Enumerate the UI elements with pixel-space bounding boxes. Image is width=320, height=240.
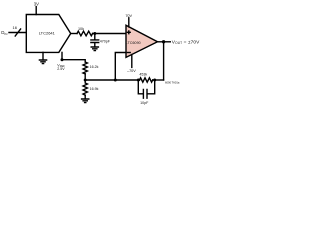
node -IN junction dot bbox=[114, 79, 117, 82]
-70V supply pin bbox=[131, 55, 133, 68]
bus slash 16 bbox=[15, 29, 20, 36]
label 16.9k bbox=[90, 87, 99, 91]
label 3V bbox=[34, 2, 39, 7]
svg-text:LTC6090: LTC6090 bbox=[126, 41, 141, 45]
resistor R4 453k bbox=[140, 78, 153, 82]
DAC ground pin wire bbox=[42, 52, 44, 60]
label DIN bbox=[1, 30, 7, 36]
svg-text:453k: 453k bbox=[139, 73, 147, 77]
wire DIN input lead bbox=[9, 32, 26, 34]
node feedback left dot bbox=[137, 79, 140, 82]
node divider tap dot bbox=[84, 79, 87, 82]
70V supply pin bbox=[128, 18, 130, 27]
resistor R1 16.2k bbox=[83, 62, 87, 74]
node output dot bbox=[162, 40, 165, 43]
svg-text:2.5V: 2.5V bbox=[57, 67, 65, 71]
svg-text:10k: 10k bbox=[78, 27, 84, 31]
svg-text:16: 16 bbox=[13, 25, 18, 30]
label LTC6090 bbox=[126, 41, 141, 45]
wire R2 to ground bbox=[84, 95, 86, 99]
wire VREF node to divider top bbox=[62, 60, 85, 62]
wire 10k to op-amp +IN bbox=[93, 33, 126, 35]
label 70V bbox=[125, 14, 132, 18]
DAC U1 LTC2641 body bbox=[26, 15, 70, 53]
svg-text:3V: 3V bbox=[34, 2, 39, 7]
resistor R3 10k bbox=[77, 31, 93, 36]
label 16 bbox=[13, 25, 18, 30]
output feedback drop wire bbox=[163, 42, 165, 80]
svg-text:470pF: 470pF bbox=[100, 39, 111, 43]
svg-text:LTC2641: LTC2641 bbox=[39, 30, 56, 35]
label LTC2641 bbox=[39, 30, 56, 35]
label fig tag 6090 TA01a bbox=[165, 80, 180, 84]
svg-text:70V: 70V bbox=[125, 14, 132, 18]
svg-text:VOUT = ±70V: VOUT = ±70V bbox=[172, 39, 200, 45]
label 16.2k bbox=[90, 65, 99, 69]
svg-text:10pF: 10pF bbox=[140, 101, 149, 105]
REF pin wire bbox=[61, 52, 63, 59]
label 10k bbox=[78, 27, 84, 31]
svg-text:–70V: –70V bbox=[127, 69, 136, 73]
feedback rail left bbox=[85, 79, 139, 81]
node feedback right dot bbox=[153, 79, 156, 82]
op-amp output wire bbox=[158, 41, 171, 43]
svg-text:16.2k: 16.2k bbox=[90, 65, 99, 69]
ground (divider) bbox=[82, 99, 89, 103]
svg-text:DIN: DIN bbox=[1, 30, 7, 36]
wire -IN to feedback rail bbox=[115, 53, 126, 81]
capacitor C1 470pF bbox=[91, 34, 99, 47]
op-amp U2 LTC6090 body bbox=[126, 25, 158, 57]
label -70V bbox=[127, 69, 136, 73]
node VREF junction dot bbox=[61, 58, 64, 61]
minus sign bbox=[127, 52, 130, 54]
label 453k bbox=[139, 73, 147, 77]
capacitor C2 10pF branch bbox=[138, 80, 154, 98]
resistor R2 16.9k bbox=[83, 80, 87, 95]
node +IN RC junction dot bbox=[93, 32, 96, 35]
label 10pF bbox=[140, 101, 149, 105]
ground (470pF) bbox=[91, 47, 98, 51]
ground (DAC) bbox=[39, 60, 46, 64]
wire DAC out to 10k bbox=[71, 33, 77, 35]
label VOUT = +-70V bbox=[172, 39, 200, 45]
svg-text:16.9k: 16.9k bbox=[90, 87, 99, 91]
3V supply pin bbox=[35, 7, 37, 15]
feedback rail right bbox=[153, 79, 164, 81]
label 470pF bbox=[100, 39, 111, 43]
svg-text:6090 TA01a: 6090 TA01a bbox=[165, 80, 180, 84]
plus sign bbox=[127, 31, 130, 34]
wire R1 to tap bbox=[84, 74, 86, 80]
label VREF 2.5V bbox=[57, 63, 65, 71]
